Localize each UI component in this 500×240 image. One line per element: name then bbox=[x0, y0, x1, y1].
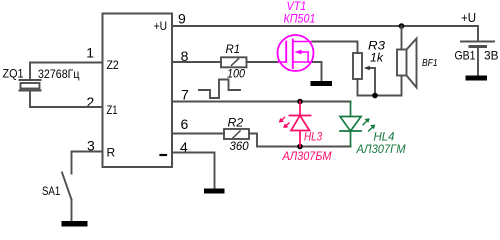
transistor VT1 bbox=[278, 35, 314, 71]
svg-text:ZQ1: ZQ1 bbox=[3, 67, 24, 81]
label VT1 bbox=[287, 0, 307, 13]
ground SA1 bbox=[62, 221, 88, 227]
junction dot HL3 top bbox=[297, 99, 303, 105]
svg-text:6: 6 bbox=[181, 116, 189, 132]
label 360 bbox=[230, 139, 249, 153]
wire R1 to VT1 gate bbox=[247, 61, 279, 63]
wire speaker top bbox=[401, 26, 403, 50]
waveform symbol pin7 bbox=[199, 80, 240, 99]
svg-text:R2: R2 bbox=[228, 116, 244, 130]
label АЛ307БМ bbox=[282, 149, 332, 163]
pin label 6 bbox=[181, 116, 189, 132]
label АЛ307ГМ bbox=[356, 142, 406, 156]
wire pin1 to crystal top bbox=[30, 63, 103, 81]
svg-text:АЛ307БМ: АЛ307БМ bbox=[282, 149, 332, 163]
label КП501 bbox=[284, 12, 316, 26]
ground pin4 bbox=[204, 189, 225, 194]
svg-text:BF1: BF1 bbox=[422, 57, 438, 69]
svg-text:Z1: Z1 bbox=[107, 103, 118, 117]
junction dot speaker top bbox=[399, 23, 405, 29]
LED HL3 arrows bbox=[279, 118, 289, 129]
label R3 bbox=[368, 39, 385, 53]
label ZQ1 bbox=[3, 67, 24, 81]
wire R2 to LED bottom rail bbox=[249, 134, 351, 147]
svg-text:32768Гц: 32768Гц bbox=[38, 67, 80, 81]
svg-text:7: 7 bbox=[181, 87, 189, 103]
speaker BF1 bbox=[397, 39, 417, 88]
label 1k bbox=[370, 51, 384, 65]
svg-text:360: 360 bbox=[230, 139, 249, 153]
wire VT1 source to ground bbox=[313, 62, 322, 81]
pin label 2 bbox=[87, 94, 95, 110]
label 100 bbox=[227, 67, 245, 81]
wire pin8 to R1 bbox=[172, 61, 221, 63]
battery GB1 bbox=[461, 42, 494, 47]
wire pin7 rail bbox=[172, 101, 351, 103]
pin label 3 bbox=[87, 137, 95, 153]
label HL3 bbox=[304, 130, 322, 144]
label GB1 bbox=[455, 49, 476, 63]
svg-text:1k: 1k bbox=[370, 51, 384, 65]
pin label 7 bbox=[181, 87, 189, 103]
junction dot HL3 bottom bbox=[297, 144, 303, 150]
svg-text:100: 100 bbox=[227, 67, 245, 81]
label R2 bbox=[228, 116, 244, 130]
svg-text:SA1: SA1 bbox=[42, 184, 60, 198]
switch SA1 lever bbox=[62, 173, 72, 200]
label SA1 bbox=[42, 184, 60, 198]
svg-text:GB1: GB1 bbox=[455, 49, 476, 63]
IC DD1 body bbox=[103, 14, 173, 168]
svg-text:HL3: HL3 bbox=[304, 130, 322, 144]
svg-text:R: R bbox=[107, 146, 116, 160]
svg-text:КП501: КП501 bbox=[284, 12, 316, 26]
wire crystal bottom to pin2 bbox=[30, 91, 103, 108]
pin label 4 bbox=[180, 139, 188, 155]
ground VT1 source bbox=[311, 81, 333, 86]
LED HL4 bbox=[340, 102, 361, 147]
label +U right bbox=[461, 11, 476, 25]
pin label 9 bbox=[178, 11, 186, 27]
wire battery to ground bbox=[477, 47, 479, 76]
resistor R1 bbox=[221, 57, 247, 67]
label 3В bbox=[484, 49, 499, 63]
svg-text:+U: +U bbox=[461, 11, 476, 25]
pin label 1 bbox=[86, 44, 94, 60]
IC label +U bbox=[154, 19, 167, 33]
wire pin3 to switch bbox=[72, 152, 103, 174]
LED HL3 bbox=[290, 102, 311, 147]
crystal ZQ1 bbox=[20, 80, 41, 91]
R3 wiper arrow bbox=[364, 66, 375, 96]
LED HL4 arrows bbox=[363, 118, 375, 131]
label 32768Гц bbox=[38, 67, 80, 81]
label BF1 bbox=[422, 57, 438, 69]
wire R3 bottom to speaker bbox=[358, 76, 402, 96]
label R1 bbox=[226, 42, 241, 56]
label HL4 bbox=[374, 130, 395, 144]
svg-text:АЛ307ГМ: АЛ307ГМ bbox=[356, 142, 406, 156]
wire pin4 to ground bbox=[172, 153, 215, 189]
wire switch to ground bbox=[71, 200, 73, 222]
ground battery bbox=[466, 76, 488, 81]
svg-text:+U: +U bbox=[154, 19, 167, 33]
wire pin6 to R2 bbox=[172, 133, 224, 135]
IC label minus bbox=[161, 154, 167, 156]
svg-text:9: 9 bbox=[178, 11, 186, 27]
IC label Z1 bbox=[107, 103, 118, 117]
resistor R3 trimmer body bbox=[353, 53, 362, 79]
svg-text:3В: 3В bbox=[484, 49, 499, 63]
svg-text:Z2: Z2 bbox=[107, 58, 120, 72]
IC label R bbox=[107, 146, 116, 160]
svg-text:R1: R1 bbox=[226, 42, 241, 56]
junction dot R3 wiper bbox=[372, 93, 378, 99]
svg-text:1: 1 bbox=[86, 44, 94, 60]
wire VT1 drain to R3 bbox=[313, 42, 358, 54]
IC label Z2 bbox=[107, 58, 120, 72]
resistor R2 bbox=[224, 129, 249, 139]
pin label 8 bbox=[181, 48, 189, 64]
wire +U rail from pin9 bbox=[172, 26, 478, 42]
